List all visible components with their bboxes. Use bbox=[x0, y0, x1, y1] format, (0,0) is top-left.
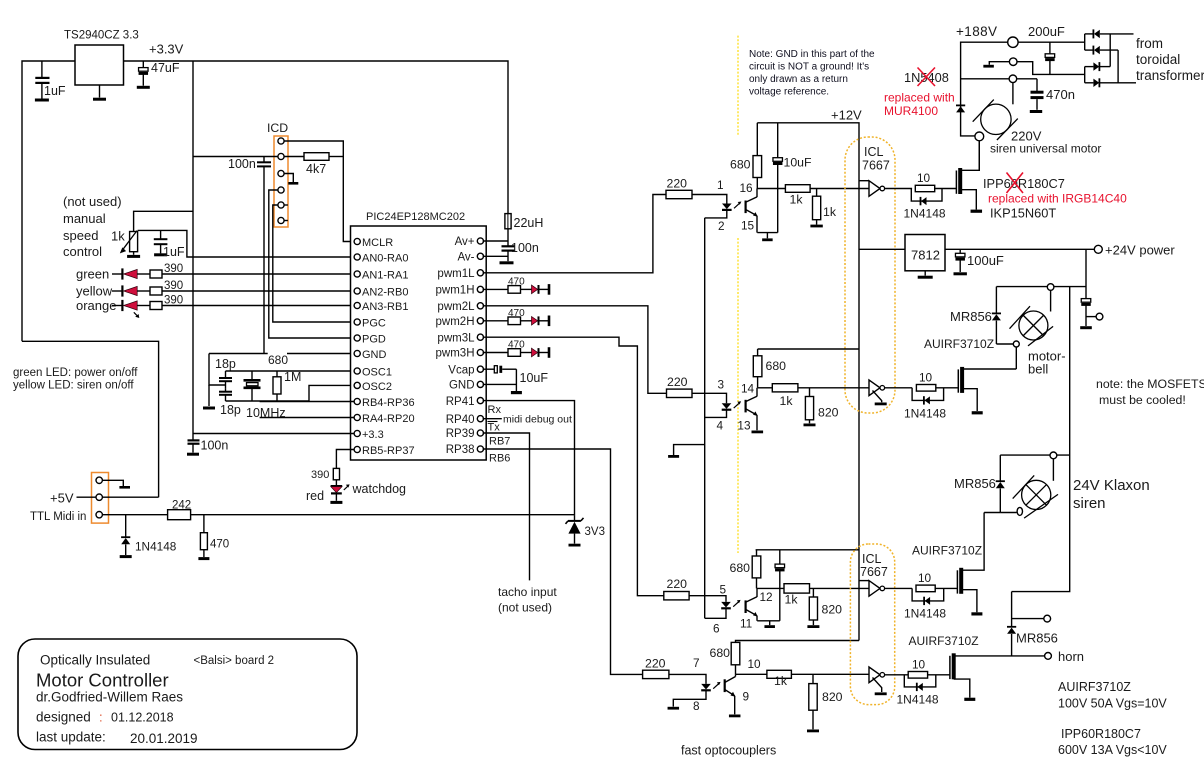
wire ICD pin5 to PGC bbox=[273, 205, 354, 322]
wire opto3 emitter rail bbox=[757, 620, 780, 622]
LED red (pwm) bbox=[532, 316, 539, 325]
wire +5V pin left stub bbox=[77, 496, 97, 498]
wire bell bottom lead bbox=[996, 343, 1013, 345]
value label 390 (yellow) bbox=[164, 280, 183, 292]
capacitor 10uF (Vcap) bbox=[494, 366, 516, 391]
pin label 16 bbox=[740, 181, 754, 195]
wire inverter3 out bbox=[885, 587, 913, 589]
svg-text:4: 4 bbox=[717, 419, 724, 433]
text annotation LED functions bbox=[13, 367, 138, 392]
value label 10MHz bbox=[246, 406, 286, 420]
svg-text:3V3: 3V3 bbox=[585, 526, 605, 538]
ground (M3 source) bbox=[971, 612, 982, 615]
diode MR856 (bell) bbox=[992, 287, 1001, 344]
ground (TTL pin1) bbox=[119, 486, 130, 489]
svg-text:1N4148: 1N4148 bbox=[904, 607, 946, 621]
wire cathode chain ground tap bbox=[674, 445, 705, 455]
ground (midi 470) bbox=[198, 557, 209, 560]
part label 1N4148 bbox=[904, 407, 946, 421]
pin label 8 bbox=[693, 699, 700, 713]
wire +3.3 pin to rail bbox=[193, 433, 354, 435]
pin label 7 bbox=[693, 656, 700, 670]
svg-text:PGC: PGC bbox=[362, 317, 386, 329]
text label TTL Midi in bbox=[30, 511, 86, 523]
diode 1N4148 bypass (M2) bbox=[912, 388, 944, 405]
svg-text:PGD: PGD bbox=[362, 333, 386, 345]
resistor 680 (opto2) bbox=[753, 349, 762, 388]
wire pwm1L to opto1 bbox=[483, 195, 666, 273]
svg-text:100V 50A Vgs=10V: 100V 50A Vgs=10V bbox=[1058, 697, 1167, 711]
LED yellow bbox=[112, 285, 137, 296]
wire bridge inner 1 bbox=[1109, 34, 1111, 67]
capacitor 100n (Av) bbox=[502, 246, 515, 261]
wire opto4 anode bbox=[669, 674, 706, 684]
net label horn bbox=[1058, 649, 1084, 664]
svg-text:7: 7 bbox=[693, 656, 700, 670]
terminal klaxon bottom bbox=[1017, 507, 1022, 515]
svg-text:note: the MOSFETS: note: the MOSFETS bbox=[1096, 377, 1204, 391]
pin RB4-RP36 (left) bbox=[354, 397, 414, 409]
value label 220 bbox=[645, 657, 666, 671]
value label 47uF bbox=[151, 61, 180, 75]
ground (Av decoupling) bbox=[500, 261, 514, 264]
part label 1N4148 bbox=[904, 607, 946, 621]
text label midi debug out bbox=[503, 414, 572, 426]
svg-text:470: 470 bbox=[508, 340, 525, 351]
wire +24V branch down bbox=[1085, 249, 1087, 298]
wire opto1 emitter rail bbox=[757, 232, 777, 234]
svg-text:220: 220 bbox=[645, 657, 666, 671]
svg-text:200uF: 200uF bbox=[1028, 24, 1065, 39]
ground (ICD pin3) bbox=[288, 182, 298, 185]
resistor 1k (opto4 series) bbox=[767, 670, 792, 678]
title text Motor Controller bbox=[36, 670, 169, 691]
text label 220V bbox=[1011, 129, 1042, 144]
svg-text:bell: bell bbox=[1028, 362, 1048, 377]
ground (M1 source) bbox=[971, 210, 983, 213]
text annotation (not used) bbox=[63, 194, 122, 259]
inverter U3A bbox=[869, 581, 885, 597]
svg-text:TS2940CZ 3.3: TS2940CZ 3.3 bbox=[64, 30, 139, 42]
svg-text:Rx: Rx bbox=[488, 404, 502, 416]
svg-text:RP38: RP38 bbox=[446, 444, 475, 456]
svg-text:horn: horn bbox=[1058, 649, 1084, 664]
terminal aux bbox=[1096, 313, 1103, 320]
wire bridge left upper bbox=[1084, 34, 1086, 50]
wire LED to terminator bbox=[539, 320, 548, 322]
wire 10 to gate M2 bbox=[936, 387, 959, 389]
svg-text:RB6: RB6 bbox=[489, 453, 510, 465]
svg-text:AUIRF3710Z: AUIRF3710Z bbox=[909, 634, 979, 648]
svg-text:tacho input: tacho input bbox=[498, 585, 557, 599]
value label 10 bbox=[917, 171, 931, 185]
wire pwm3L to opto3 bbox=[483, 337, 664, 596]
pin label 15 bbox=[741, 219, 755, 233]
svg-text:10: 10 bbox=[918, 571, 932, 585]
pin pwm2H (right) bbox=[436, 316, 484, 328]
wire RP38 RB6 to opto4 bbox=[483, 449, 643, 674]
resistor 820 (opto4) bbox=[809, 674, 817, 729]
wire 24V feed vertical bbox=[1012, 287, 1070, 592]
transistor Q2 MOSFET AUIRF3710Z bbox=[958, 367, 962, 393]
svg-text:680: 680 bbox=[730, 561, 751, 575]
pin AN2-RB0 (left) bbox=[354, 286, 408, 298]
svg-text:pwm3L: pwm3L bbox=[437, 332, 475, 344]
wire node12 row bbox=[757, 587, 785, 589]
wire 7812 input to +12V rail bbox=[859, 248, 905, 250]
svg-text:toroidal: toroidal bbox=[1136, 52, 1180, 67]
svg-text:RA4-RP20: RA4-RP20 bbox=[362, 413, 415, 425]
wire node14 row bbox=[758, 387, 773, 389]
wire klaxon bottom row bbox=[984, 512, 1000, 514]
optocoupler 3 LED bbox=[721, 602, 731, 608]
wire RA4-RP20 stub bbox=[260, 417, 354, 419]
wire inverter3 V+ stub bbox=[859, 580, 869, 582]
wire opto1 cathode bbox=[705, 211, 727, 218]
svg-text:RB5-RP37: RB5-RP37 bbox=[362, 445, 415, 457]
optocoupler 1 light arrow bbox=[734, 202, 741, 209]
svg-text:green: green bbox=[76, 267, 109, 282]
terminal motor mid bbox=[1009, 58, 1017, 66]
svg-text:TTL Midi in: TTL Midi in bbox=[30, 511, 86, 523]
part label ICL 7667 bbox=[862, 145, 890, 173]
svg-text:OSC1: OSC1 bbox=[362, 366, 392, 378]
svg-text:RP41: RP41 bbox=[446, 396, 475, 408]
value label 4k7 bbox=[306, 162, 326, 176]
value label 1M bbox=[284, 370, 301, 384]
optocoupler 4 light arrow bbox=[713, 682, 720, 689]
svg-text::: : bbox=[99, 710, 103, 725]
wire inverter2 out bbox=[885, 387, 913, 389]
ground (opto4 emitter) bbox=[729, 715, 741, 718]
resistor 10 (gate M4) bbox=[908, 672, 927, 679]
net label RB7 bbox=[489, 436, 510, 448]
wire GND pin to cap ground bbox=[483, 383, 517, 385]
capacitor 18p (top) bbox=[219, 371, 232, 388]
resistor 390 (watchdog) bbox=[333, 468, 339, 479]
wire pot top to +3.3V bbox=[134, 211, 193, 231]
part label MR856 bbox=[950, 309, 992, 324]
svg-text:OSC2: OSC2 bbox=[362, 381, 392, 393]
pin label 13 bbox=[737, 419, 751, 433]
svg-text:7667: 7667 bbox=[860, 565, 888, 579]
value label 680 bbox=[710, 646, 731, 660]
pin PGD (left) bbox=[354, 333, 386, 345]
svg-text:AUIRF3710Z: AUIRF3710Z bbox=[1058, 680, 1131, 694]
value label 680 bbox=[730, 158, 751, 172]
ground (M4 source) bbox=[964, 698, 975, 701]
value label 1k bbox=[790, 193, 804, 207]
terminal bell bottom bbox=[1013, 341, 1019, 347]
svg-text:RB7: RB7 bbox=[489, 436, 510, 448]
part label TS2940CZ 3.3 bbox=[64, 30, 139, 42]
pin +3.3 (left) bbox=[354, 429, 384, 441]
pin label 9 bbox=[743, 690, 750, 704]
pin Av+ (right) bbox=[455, 236, 484, 248]
value label 10 bbox=[919, 371, 933, 385]
ground (opto1 pulldown) bbox=[810, 225, 822, 228]
svg-text:100n: 100n bbox=[201, 439, 229, 453]
svg-text:+5V: +5V bbox=[50, 491, 74, 506]
svg-text:10: 10 bbox=[912, 658, 926, 672]
svg-text:12: 12 bbox=[760, 590, 773, 604]
wire bell top lead bbox=[1050, 290, 1052, 311]
svg-text:+24V power: +24V power bbox=[1105, 243, 1175, 258]
wire opto2 cathode bbox=[705, 410, 727, 417]
transistor Q3 MOSFET AUIRF3710Z bbox=[957, 568, 961, 594]
wire ch3 +12 rail bbox=[756, 549, 859, 551]
svg-text:RP40: RP40 bbox=[446, 414, 475, 426]
pin OSC1 (left) bbox=[354, 366, 392, 378]
inverter U3B bbox=[869, 667, 885, 683]
value label 22uH bbox=[514, 216, 544, 230]
wire inverter1 V+ stub bbox=[859, 180, 869, 182]
red cross (IPP60R180C7) bbox=[1007, 173, 1024, 194]
svg-text:control: control bbox=[63, 244, 102, 259]
ground (midi clamp diode) bbox=[120, 555, 132, 558]
LED red watchdog bbox=[331, 480, 343, 501]
svg-text:24V Klaxon: 24V Klaxon bbox=[1073, 477, 1150, 494]
IC outline ICL7667 (upper, yellow) bbox=[845, 137, 895, 413]
svg-text:Vcap: Vcap bbox=[448, 364, 474, 376]
svg-text:GND: GND bbox=[362, 349, 387, 361]
ground (Vcap) bbox=[511, 391, 522, 394]
diode bridge D1 bbox=[1085, 29, 1134, 38]
svg-text:1k: 1k bbox=[111, 229, 125, 244]
wire opto3 anode bbox=[689, 596, 726, 602]
svg-text:voltage reference.: voltage reference. bbox=[749, 87, 829, 98]
svg-text:red: red bbox=[306, 489, 324, 503]
value label 1k bbox=[823, 205, 837, 219]
wire bell bottom to M2 drain bbox=[1015, 347, 1017, 369]
wire Av+ to inductor bbox=[483, 240, 508, 242]
svg-text:GND: GND bbox=[449, 380, 475, 392]
wire M2 drain bbox=[964, 368, 1017, 370]
value label 680 (gnd row) bbox=[268, 353, 288, 367]
capacitor 24V rail bbox=[1081, 299, 1091, 326]
wire horn aux tap bbox=[1012, 618, 1044, 620]
inverter U2B bbox=[869, 380, 885, 396]
value label 680 bbox=[730, 561, 751, 575]
svg-text:Av+: Av+ bbox=[455, 236, 475, 248]
wire ICD pin2 left (VDD) bbox=[193, 156, 278, 158]
connector ICD pin 4 bbox=[278, 187, 284, 193]
svg-text:IPP60R180C7: IPP60R180C7 bbox=[1061, 727, 1141, 741]
pin RP41 (right) bbox=[446, 396, 484, 408]
zener 3V3 bbox=[566, 515, 584, 543]
value label 1uF bbox=[163, 245, 185, 259]
wire M3 drain bbox=[963, 513, 984, 571]
svg-text:AN1-RA1: AN1-RA1 bbox=[362, 269, 408, 281]
ground (zener) bbox=[569, 544, 581, 547]
wire 10 to gate M4 bbox=[928, 674, 950, 676]
svg-text:designed: designed bbox=[36, 710, 91, 725]
svg-text:1M: 1M bbox=[284, 370, 301, 384]
svg-text:AN3-RB1: AN3-RB1 bbox=[362, 301, 408, 313]
svg-text:AN0-RA0: AN0-RA0 bbox=[362, 252, 408, 264]
diode 1N4148 bypass (M1) bbox=[911, 189, 942, 206]
value label 220 bbox=[667, 375, 688, 389]
title text Optically Insulated bbox=[40, 653, 150, 668]
svg-text:100uF: 100uF bbox=[967, 253, 1004, 268]
wire GND row right segment bbox=[287, 353, 354, 355]
svg-text:1N4148: 1N4148 bbox=[904, 207, 946, 221]
svg-text:yellow: yellow bbox=[76, 284, 113, 299]
resistor 10 (gate M1) bbox=[915, 185, 934, 191]
resistor 470 (midi) bbox=[200, 515, 207, 557]
svg-text:9: 9 bbox=[743, 690, 750, 704]
wire RP39 RB7 to tacho bbox=[483, 433, 530, 580]
crystal X1 10MHz bbox=[244, 371, 261, 401]
wire motor mid to bridge bbox=[1017, 62, 1085, 75]
pin RP40 (right) bbox=[446, 414, 484, 426]
optocoupler 1 phototransistor bbox=[746, 189, 758, 233]
value label 220 bbox=[667, 177, 688, 191]
svg-text:10: 10 bbox=[919, 371, 933, 385]
wire ICD pin4 to PGD bbox=[269, 190, 354, 338]
value label 1k bbox=[785, 593, 799, 607]
diode MR856 (horn) bbox=[1007, 592, 1016, 656]
text replaced with bbox=[884, 91, 955, 105]
svg-text:Optically Insulated: Optically Insulated bbox=[40, 653, 150, 668]
value label 242 bbox=[172, 500, 191, 512]
pin pwm1H (right) bbox=[436, 285, 484, 297]
part label 1N4148 bbox=[897, 693, 939, 707]
ground (opto4 820) bbox=[807, 730, 819, 733]
svg-text:transformer: transformer bbox=[1136, 68, 1204, 83]
ground (pot bottom) bbox=[127, 252, 140, 257]
pin label 1 bbox=[717, 178, 724, 192]
pin RA4-RP20 (left) bbox=[354, 413, 414, 425]
svg-text:390: 390 bbox=[164, 295, 183, 307]
value label 18p bbox=[215, 357, 236, 371]
value label 18p bbox=[220, 403, 241, 417]
wire M1 source bbox=[962, 190, 977, 210]
wire +24V rail bbox=[945, 248, 1094, 250]
connector TTL outline bbox=[92, 473, 109, 524]
diode bridge D3 bbox=[1085, 62, 1111, 71]
resistor 1k (opto1 series) bbox=[785, 185, 810, 193]
svg-text:2: 2 bbox=[718, 219, 725, 233]
LED green bbox=[112, 268, 137, 279]
net label +3.3V bbox=[149, 42, 184, 57]
ground (opto2 emitter) bbox=[752, 430, 764, 433]
IC outline ICL7667 (lower, yellow) bbox=[850, 544, 894, 705]
wire bridge inner 2 bbox=[1117, 50, 1119, 83]
pin pwm1L (right) bbox=[437, 268, 483, 280]
svg-text:MR856: MR856 bbox=[954, 476, 996, 491]
capacitor 18p (bottom) bbox=[219, 388, 232, 401]
wire +5V input rail top bbox=[22, 61, 75, 341]
pin label 10 bbox=[748, 657, 762, 671]
text label 24V Klaxon siren bbox=[1073, 477, 1150, 512]
svg-text:ICD: ICD bbox=[267, 121, 288, 135]
wire bell top row bbox=[996, 286, 1086, 288]
value label 470 bbox=[508, 277, 525, 288]
svg-text:47uF: 47uF bbox=[151, 61, 180, 75]
text annotation tacho bbox=[498, 585, 557, 615]
value label 1k bbox=[774, 674, 788, 688]
svg-text:100n: 100n bbox=[511, 241, 539, 255]
svg-text:+3.3V: +3.3V bbox=[149, 42, 184, 57]
value label 100n bbox=[228, 157, 256, 171]
regulator U TS2940CZ box bbox=[75, 45, 124, 85]
optocoupler 1 LED bbox=[722, 204, 732, 210]
wire 1k to inverter1 bbox=[810, 188, 869, 190]
pin label 14 bbox=[741, 382, 755, 396]
IC U1 PIC24EP128MC202 box bbox=[351, 226, 487, 460]
wire GND row left segment bbox=[209, 353, 268, 355]
resistor 242 bbox=[168, 510, 575, 520]
value label 470n bbox=[1046, 87, 1075, 102]
capacitor 100n (ICD/VDD) bbox=[257, 157, 271, 354]
regulator 7812 box bbox=[905, 235, 945, 271]
diode bridge D4 bbox=[1085, 78, 1136, 87]
svg-text:10: 10 bbox=[748, 657, 762, 671]
label ICD bbox=[267, 121, 288, 135]
lamp 24V klaxon bbox=[1013, 475, 1058, 518]
capacitor 200uF bbox=[1045, 42, 1055, 74]
pin RB5-RP37 (left) bbox=[354, 445, 414, 457]
svg-text:(not used): (not used) bbox=[63, 194, 122, 209]
connector ICD pin 3 bbox=[278, 170, 284, 176]
svg-text:20.01.2019: 20.01.2019 bbox=[130, 731, 198, 746]
inductor 22uH bbox=[505, 214, 511, 229]
wire ICD pin1 to MCLR bbox=[284, 141, 354, 242]
resistor 390 (yellow LED) bbox=[137, 287, 354, 295]
pin OSC2 (left) bbox=[354, 381, 392, 393]
value label 470 bbox=[210, 539, 229, 551]
svg-text:14: 14 bbox=[741, 382, 755, 396]
optocoupler 2 phototransistor bbox=[746, 388, 758, 430]
resistor 220 (opto1) bbox=[666, 190, 692, 198]
wire klaxon top row bbox=[1000, 454, 1069, 456]
text label green bbox=[76, 267, 109, 282]
ground (7812) bbox=[918, 271, 933, 277]
text from toroidal transformer bbox=[1136, 36, 1204, 83]
svg-text:10: 10 bbox=[917, 171, 931, 185]
svg-text:ICL: ICL bbox=[862, 552, 882, 566]
isolation barrier (yellow dashed) bbox=[737, 238, 739, 553]
resistor 220 (opto2) bbox=[667, 389, 693, 397]
resistor 470 (pwm LED row y=320.8) bbox=[483, 317, 532, 325]
optocoupler 3 light arrow bbox=[733, 600, 740, 607]
part label PIC24EP128MC202 bbox=[366, 211, 465, 223]
value label 220 bbox=[667, 577, 688, 591]
capacitor 100uF bbox=[955, 249, 965, 272]
svg-text:390: 390 bbox=[311, 469, 329, 481]
optocoupler 2 light arrow bbox=[734, 401, 741, 408]
isolation barrier (yellow dashed) bbox=[737, 36, 739, 136]
svg-text:3: 3 bbox=[718, 378, 725, 392]
part label 1N5408 bbox=[904, 70, 949, 85]
title text designed bbox=[36, 710, 174, 725]
wire inverter1 out bbox=[885, 188, 913, 190]
wire motor bottom to drain bbox=[978, 141, 980, 171]
wire opto4 cathode bbox=[673, 691, 706, 707]
svg-text:6: 6 bbox=[713, 622, 720, 636]
wire +188V to bridge bbox=[1018, 41, 1085, 43]
svg-text:220: 220 bbox=[667, 375, 688, 389]
svg-text:220: 220 bbox=[667, 177, 688, 191]
value label 390 (orange) bbox=[164, 295, 183, 307]
potentiometer 1k bbox=[120, 231, 138, 254]
svg-text:pwm1L: pwm1L bbox=[437, 268, 475, 280]
value label 100n bbox=[511, 241, 539, 255]
wire +3.3V branch vertical bbox=[192, 61, 194, 440]
value label 10 bbox=[912, 658, 926, 672]
pin pwm3L (right) bbox=[437, 332, 483, 344]
